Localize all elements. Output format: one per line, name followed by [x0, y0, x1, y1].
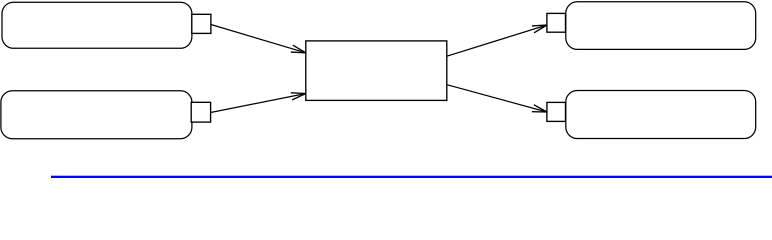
- center rectangle: [306, 41, 447, 101]
- port square: bottom-left: [191, 102, 210, 122]
- arrowhead on wire into center rect (top): [291, 45, 306, 53]
- wire: bottom-left square to center rect: [211, 94, 306, 113]
- node: bottom-left rounded box: [1, 91, 192, 139]
- horizontal rule (blue): [51, 176, 772, 178]
- port square: top-right: [547, 13, 566, 32]
- port square: bottom-right: [547, 102, 566, 121]
- wire: center rect to top-right square: [447, 25, 547, 56]
- arrowhead on wire into bottom-right square: [532, 105, 547, 112]
- node: bottom-right rounded box: [566, 91, 756, 139]
- port square: top-left: [192, 14, 211, 33]
- node: top-right rounded box: [566, 2, 756, 50]
- arrowhead on wire into top-right square: [532, 25, 547, 33]
- node: top-left rounded box: [2, 2, 192, 48]
- wire: center rect to bottom-right square: [447, 85, 547, 112]
- arrowhead on wire into center rect (bottom): [291, 93, 306, 100]
- wire: top-left square to center rect: [211, 25, 306, 53]
